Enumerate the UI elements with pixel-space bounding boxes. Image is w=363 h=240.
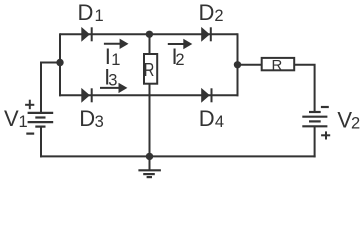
- node ground junction: [146, 153, 153, 160]
- svg-text:2: 2: [175, 51, 184, 69]
- wire V1 bottom stem: [40, 127, 42, 158]
- label D2: [199, 0, 224, 25]
- node left junction to V1: [56, 59, 63, 66]
- svg-text:R: R: [272, 57, 283, 74]
- label V1: [4, 106, 28, 131]
- battery V1: [28, 113, 54, 127]
- diode D4: [201, 88, 211, 103]
- wire bottom horizontal: [40, 155, 316, 157]
- svg-text:4: 4: [215, 113, 224, 131]
- label I1: [105, 44, 121, 69]
- svg-text:1: 1: [19, 113, 28, 131]
- diode D1: [81, 27, 91, 42]
- svg-text:3: 3: [95, 113, 104, 131]
- battery V2 plus sign: [321, 131, 330, 139]
- battery V2 minus sign: [321, 106, 329, 108]
- svg-text:D: D: [78, 0, 94, 25]
- node on top wire above R1: [146, 31, 153, 38]
- diode D3: [81, 88, 91, 103]
- svg-text:2: 2: [351, 114, 360, 132]
- svg-text:1: 1: [95, 7, 104, 25]
- label I2: [172, 44, 185, 69]
- label D4: [199, 106, 224, 131]
- resistor R1 (vertical box): [144, 54, 157, 84]
- resistor R2 (horizontal box): [262, 57, 295, 74]
- ground stub: [149, 156, 151, 170]
- battery V1 plus sign: [25, 100, 34, 110]
- wire R2 to V2 top: [294, 65, 314, 112]
- wire top horizontal: [60, 33, 238, 35]
- label D3: [79, 106, 103, 131]
- wire middle horizontal: [59, 94, 239, 96]
- label I3: [104, 65, 117, 90]
- current arrow I3: [100, 83, 127, 93]
- wire branch to V1 top: [41, 63, 60, 113]
- wire node to R2: [238, 64, 262, 66]
- wire R1 top stub: [149, 34, 151, 54]
- current arrow I1: [104, 39, 129, 49]
- battery V2: [302, 112, 327, 126]
- wire R1 bottom to ground node: [149, 84, 151, 157]
- svg-text:3: 3: [108, 72, 117, 90]
- svg-text:D: D: [199, 0, 215, 25]
- svg-text:1: 1: [111, 51, 120, 69]
- label D1: [78, 0, 104, 25]
- svg-text:R: R: [144, 59, 155, 80]
- svg-text:D: D: [199, 106, 215, 131]
- wire left vertical: [59, 33, 61, 96]
- wire right vertical: [237, 33, 239, 96]
- svg-text:2: 2: [214, 7, 223, 25]
- battery V1 minus sign: [26, 133, 34, 135]
- node right junction to R2: [234, 61, 241, 68]
- diode D2: [201, 27, 211, 42]
- ground: [138, 170, 161, 177]
- svg-text:D: D: [79, 106, 95, 131]
- svg-text:V: V: [4, 106, 19, 131]
- current arrow I2: [168, 39, 193, 49]
- wire V2 bottom stem: [314, 126, 316, 157]
- label V2: [337, 107, 360, 132]
